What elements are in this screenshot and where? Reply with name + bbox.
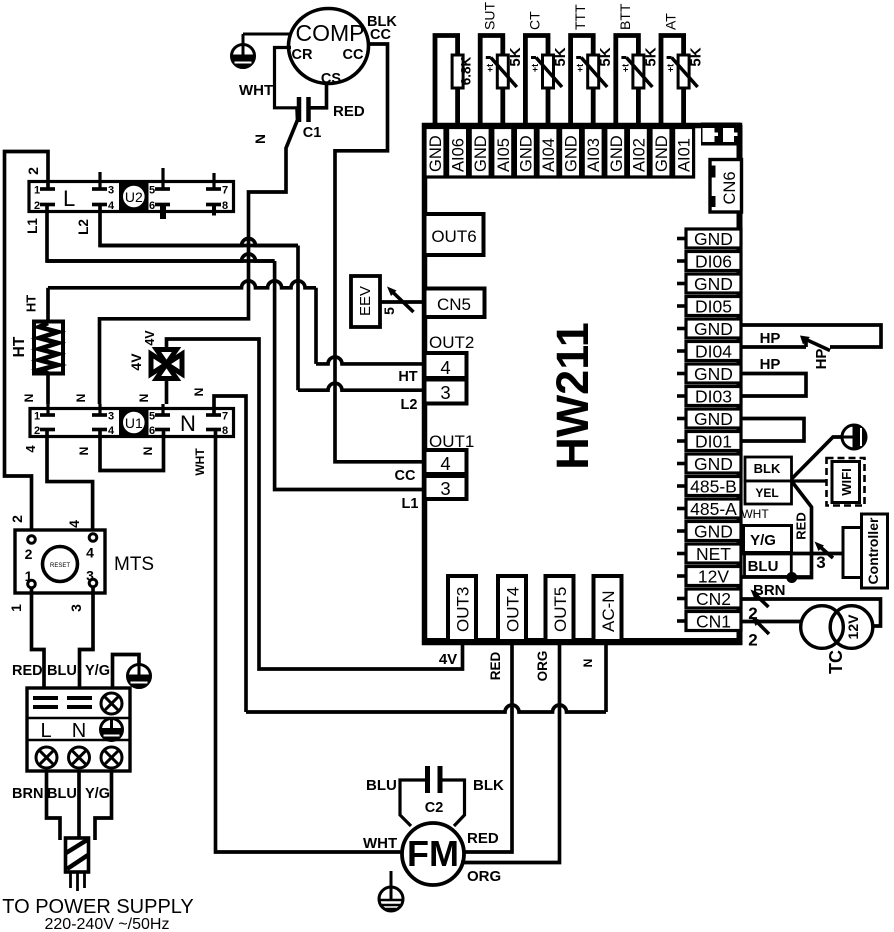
fuse marks — [33, 696, 58, 700]
wire 4V valve top to OUT3 (4V) — [167, 339, 463, 669]
svg-text:FM: FM — [407, 833, 459, 874]
svg-text:TC: TC — [826, 650, 846, 674]
svg-text:ORG: ORG — [467, 868, 501, 885]
svg-text:GND: GND — [563, 135, 581, 172]
box BLU — [745, 554, 792, 577]
svg-text:6: 6 — [149, 200, 155, 212]
svg-text:L: L — [63, 186, 75, 211]
wire N from C1 (to U1 pin3) — [100, 108, 298, 404]
svg-text:7: 7 — [222, 411, 228, 423]
svg-text:HP: HP — [760, 330, 781, 347]
wire U1 pin4-pin6 jumper — [100, 430, 164, 471]
svg-text:BLU: BLU — [366, 777, 397, 794]
svg-text:RED: RED — [467, 830, 499, 847]
U1 pin 6 — [155, 428, 170, 432]
U1 pin 3 — [92, 413, 107, 417]
pin 12V (right column 16) — [686, 567, 741, 586]
pin GND (right column 7) — [686, 364, 741, 383]
module WIFI — [827, 458, 865, 506]
wire to WIFI earth — [792, 437, 843, 479]
svg-text:NET: NET — [696, 544, 731, 564]
wire L1 vertical to OUT1 pin3 — [275, 261, 424, 490]
U2 pin 8 — [206, 203, 221, 207]
link DI01-GND loop — [741, 419, 804, 442]
svg-text:N: N — [72, 720, 86, 742]
U2 pin6 stub — [160, 205, 166, 220]
U2 pin 3 — [92, 187, 107, 191]
wire CN1 to TC — [741, 620, 801, 624]
pin GND (right column 9) — [686, 409, 741, 428]
svg-text:1: 1 — [25, 568, 33, 584]
wire BRN down — [47, 771, 61, 840]
svg-text:DI01: DI01 — [695, 432, 732, 452]
svg-text:CC: CC — [395, 468, 416, 484]
pin OUT5 (bottom row) — [546, 576, 574, 641]
earth (WIFI shield) — [842, 425, 866, 449]
svg-text:COMP: COMP — [296, 20, 365, 46]
capacitor C1 — [297, 97, 302, 122]
svg-text:DI03: DI03 — [695, 387, 732, 407]
pin GND (right column 11) — [686, 454, 741, 473]
pin GND (top row 1) — [425, 128, 445, 178]
svg-text:BLU: BLU — [47, 786, 77, 802]
sensor loop 1 wiring — [435, 36, 458, 129]
svg-text:5K: 5K — [642, 47, 659, 66]
svg-text:L: L — [40, 720, 51, 742]
box Y/G — [744, 526, 792, 553]
svg-text:5K: 5K — [507, 47, 524, 66]
svg-text:OUT6: OUT6 — [431, 227, 476, 246]
wire L1: U2 pin2 down — [47, 205, 275, 262]
pin 485-A (right column 13) — [686, 499, 741, 518]
wire HT to OUT2 pin4 — [314, 288, 318, 364]
svg-text:RESET: RESET — [50, 563, 70, 569]
svg-text:485-B: 485-B — [690, 477, 737, 497]
svg-text:2: 2 — [34, 425, 40, 437]
svg-text:OUT5: OUT5 — [551, 587, 570, 632]
wire EEV to CN5 — [380, 300, 424, 304]
svg-text:CN1: CN1 — [696, 612, 731, 632]
wire U1 pin7 to AC-N — [214, 396, 246, 712]
svg-text:OUT3: OUT3 — [454, 587, 473, 632]
svg-text:L1: L1 — [25, 218, 40, 234]
pin CN1 (right column 18) — [686, 612, 741, 631]
terminal strip U1 — [30, 409, 234, 437]
slash 3 — [818, 545, 833, 558]
svg-text:N: N — [141, 447, 155, 456]
connector CN5 — [425, 289, 485, 318]
wire ORG: FM to OUT5 — [461, 643, 560, 863]
wire COMP CC down (to OUT1 pin4, CC) — [335, 44, 424, 462]
svg-text:CT: CT — [527, 11, 543, 30]
U2 pin 2 — [40, 203, 55, 207]
svg-text:3: 3 — [68, 604, 84, 612]
earth terminal — [101, 719, 123, 741]
U2 pin 6 — [155, 203, 170, 207]
pin GND (right column 5) — [686, 319, 741, 338]
stepper EEV — [351, 276, 380, 327]
svg-text:EEV: EEV — [357, 286, 374, 316]
svg-text:OUT2: OUT2 — [429, 333, 474, 352]
svg-text:GND: GND — [694, 319, 733, 339]
svg-text:5: 5 — [381, 307, 397, 315]
svg-text:BLU: BLU — [47, 663, 77, 679]
svg-text:N: N — [137, 394, 151, 403]
svg-text:GND: GND — [427, 135, 445, 172]
svg-text:1: 1 — [34, 185, 40, 197]
svg-text:3: 3 — [108, 411, 114, 423]
svg-text:2: 2 — [25, 167, 41, 175]
svg-text:GND: GND — [653, 135, 671, 172]
svg-text:CC: CC — [343, 47, 364, 63]
svg-text:N: N — [581, 659, 595, 668]
heater HT — [34, 322, 63, 374]
svg-text:RED: RED — [488, 652, 503, 681]
svg-text:+t: +t — [620, 64, 630, 72]
sensor loop 6 wiring — [661, 36, 684, 129]
box YEL — [745, 481, 792, 504]
thermistor 5K (TTT) — [588, 55, 599, 88]
slash 5 (EEV cable) — [391, 290, 414, 312]
svg-text:2: 2 — [25, 546, 33, 562]
svg-text:3: 3 — [440, 478, 450, 499]
box BLK — [745, 457, 792, 481]
MTS terminal 1 — [28, 580, 36, 588]
sensor loop 4 wiring — [571, 36, 594, 129]
wire HT top — [46, 288, 50, 322]
svg-text:220-240V ~/50Hz: 220-240V ~/50Hz — [45, 916, 170, 932]
wire HT bottom to U1 pin1 — [46, 373, 50, 404]
svg-text:3: 3 — [86, 568, 94, 584]
pin GND (right column 3) — [686, 274, 741, 293]
svg-text:2: 2 — [9, 515, 25, 523]
svg-text:Y/G: Y/G — [85, 786, 110, 802]
svg-text:GND: GND — [694, 409, 733, 429]
svg-text:2: 2 — [34, 200, 40, 212]
svg-text:6: 6 — [149, 425, 155, 437]
svg-text:+t: +t — [575, 64, 585, 72]
pin AI03 (top row 8) — [583, 128, 603, 178]
U1 pin3 stub — [98, 404, 101, 415]
wire CR to C1 (WHT) — [275, 48, 298, 108]
wire RED down — [792, 481, 812, 578]
svg-text:TO POWER SUPPLY: TO POWER SUPPLY — [2, 896, 194, 918]
earth (compressor shell ground) — [242, 34, 245, 48]
sensor loop 2 wiring — [480, 36, 503, 129]
svg-text:OUT4: OUT4 — [504, 587, 523, 632]
pin DI04 (right column 6) — [686, 342, 741, 361]
svg-text:WHT: WHT — [363, 835, 397, 852]
sensor loop 3 wiring — [525, 36, 548, 129]
svg-text:DI04: DI04 — [695, 342, 732, 362]
pin GND (top row 9) — [606, 128, 626, 178]
svg-text:N: N — [74, 394, 88, 403]
wire Y/G down — [95, 771, 112, 840]
svg-text:4: 4 — [108, 425, 115, 437]
pin AI01 (top row 12) — [674, 128, 694, 178]
power cable plug — [66, 838, 89, 872]
svg-text:12V: 12V — [845, 614, 861, 640]
svg-text:WHT: WHT — [193, 448, 207, 476]
switch HP (high pressure) loop — [741, 325, 881, 347]
pin GND (top row 11) — [651, 128, 671, 178]
wire C1 to CS — [309, 83, 327, 108]
connector OUT6 — [425, 214, 484, 255]
svg-text:AT: AT — [662, 13, 678, 30]
connector to controller — [843, 528, 862, 578]
switch MTS (manual thermal switch) — [15, 530, 105, 593]
svg-text:AI05: AI05 — [495, 138, 513, 172]
U1 pin 4 — [92, 428, 107, 432]
svg-text:5K: 5K — [688, 47, 705, 66]
connector CN6 — [710, 160, 742, 213]
svg-text:BRN: BRN — [12, 786, 43, 802]
svg-text:L2: L2 — [401, 397, 418, 413]
pin GND (top row 7) — [561, 128, 581, 178]
svg-text:3: 3 — [108, 185, 114, 197]
wire NET (3) to Controller — [741, 552, 843, 556]
svg-text:3: 3 — [816, 553, 825, 572]
svg-text:C1: C1 — [303, 125, 322, 141]
svg-text:L1: L1 — [402, 496, 419, 512]
wire RED: FM to OUT4 — [464, 643, 512, 852]
svg-text:CS: CS — [321, 71, 341, 87]
thermistor 5K (SUT) — [497, 55, 508, 88]
svg-text:WIFI: WIFI — [839, 468, 854, 495]
slash 2 (CN2) — [754, 593, 769, 607]
svg-text:U1: U1 — [125, 415, 143, 431]
svg-text:RED: RED — [333, 103, 365, 120]
wire L2 vertical to OUT2 pin3 — [296, 246, 300, 391]
svg-text:AI03: AI03 — [585, 138, 603, 172]
thermistor 5K (BTT) — [633, 55, 644, 88]
svg-text:3: 3 — [440, 382, 450, 403]
MTS terminal 2 — [28, 536, 36, 544]
wire 4V valve bottom to U1 pin5 — [165, 378, 169, 404]
wire L1 horizontal (hops N rail) — [47, 254, 275, 261]
svg-text:GND: GND — [517, 135, 535, 172]
wire BLU (C2 left) — [400, 780, 428, 826]
svg-text:AI01: AI01 — [676, 138, 694, 172]
svg-text:5: 5 — [149, 185, 155, 197]
wire MTS 3 to power block (BLU) — [80, 587, 94, 688]
pin DI06 (right column 2) — [686, 252, 741, 271]
svg-text:HT: HT — [398, 369, 417, 385]
svg-text:RED: RED — [12, 663, 43, 679]
svg-text:+t: +t — [530, 64, 540, 72]
svg-text:GND: GND — [694, 454, 733, 474]
svg-text:BLK: BLK — [754, 461, 781, 476]
wire MTS 1 to power block (RED) — [32, 588, 45, 688]
box Controller — [862, 514, 888, 588]
U2 pin 1 — [40, 187, 55, 191]
svg-text:8: 8 — [222, 200, 228, 212]
svg-text:HT: HT — [24, 295, 39, 312]
svg-text:AI06: AI06 — [450, 138, 468, 172]
svg-text:CR: CR — [292, 47, 313, 63]
HP switch blade — [805, 339, 830, 351]
svg-text:AI02: AI02 — [630, 138, 648, 172]
svg-text:4: 4 — [440, 453, 450, 474]
svg-text:SUT: SUT — [482, 2, 498, 30]
pin 485-B (right column 12) — [686, 477, 741, 496]
svg-text:DI05: DI05 — [695, 297, 732, 317]
svg-text:BLK: BLK — [473, 777, 504, 794]
slash 2 (CN1) — [755, 620, 769, 634]
svg-text:U2: U2 — [125, 189, 143, 205]
pin AI02 (top row 10) — [628, 128, 648, 178]
resistor 6.8K — [452, 55, 463, 88]
svg-text:CC: CC — [370, 27, 391, 43]
thermistor 5K (AT) — [678, 55, 689, 88]
sensor loop 5 wiring — [616, 36, 639, 129]
U2 pin 7 — [206, 187, 221, 191]
svg-text:GND: GND — [472, 135, 490, 172]
svg-text:5K: 5K — [597, 47, 614, 66]
svg-text:GND: GND — [694, 364, 733, 384]
svg-text:HP: HP — [813, 349, 830, 370]
svg-text:GND: GND — [694, 522, 733, 542]
svg-text:4: 4 — [86, 545, 94, 561]
pin AI06 (top row 2) — [448, 128, 468, 178]
svg-text:L2: L2 — [76, 219, 91, 235]
svg-text:ORG: ORG — [535, 651, 550, 682]
svg-text:DI06: DI06 — [695, 252, 732, 272]
valve 4V (4-way) — [151, 354, 167, 374]
U1 pin1 stub — [46, 404, 49, 415]
junction dot — [786, 572, 797, 583]
svg-text:8: 8 — [222, 425, 228, 437]
wire BLU down — [77, 771, 81, 845]
svg-text:1: 1 — [8, 604, 24, 612]
wire L2: U2 pin4 down — [100, 205, 298, 246]
svg-text:CN2: CN2 — [696, 589, 731, 609]
pin AI05 (top row 4) — [493, 128, 513, 178]
svg-text:12V: 12V — [698, 567, 729, 587]
pin DI01 (right column 10) — [686, 432, 741, 451]
U1 pin 1 — [40, 413, 55, 417]
svg-text:BTT: BTT — [617, 3, 633, 30]
terminal strip U2 — [29, 182, 234, 212]
pin NET (right column 15) — [686, 544, 741, 563]
U1 pin 8 — [206, 428, 221, 432]
svg-text:Controller: Controller — [865, 517, 881, 584]
pin DI05 (right column 4) — [686, 297, 741, 316]
U2 pin 5 — [155, 187, 170, 191]
svg-text:5: 5 — [149, 411, 155, 423]
plug prongs — [69, 872, 72, 888]
svg-text:5K: 5K — [552, 47, 569, 66]
relay U1 marker — [119, 409, 149, 437]
svg-text:YEL: YEL — [755, 486, 778, 500]
U1 pin5 stub — [161, 404, 164, 415]
link DI03-GND loop — [741, 374, 806, 397]
svg-text:WHT: WHT — [239, 82, 273, 99]
svg-text:GND: GND — [608, 135, 626, 172]
U2 pin3 stub — [98, 172, 101, 189]
pin OUT3 (bottom row) — [448, 576, 476, 641]
wire U2 pin1 to left rail — [5, 152, 49, 541]
svg-text:N: N — [22, 394, 36, 403]
pin DI03 (right column 8) — [686, 387, 741, 406]
svg-text:TTT: TTT — [572, 4, 588, 30]
svg-text:+t: +t — [666, 64, 676, 72]
pin GND (top row 5) — [515, 128, 535, 178]
svg-text:4: 4 — [66, 520, 82, 528]
capacitor C2 — [425, 766, 430, 793]
svg-text:WHT: WHT — [741, 507, 769, 521]
svg-text:GND: GND — [694, 229, 733, 249]
svg-text:6.8K: 6.8K — [459, 56, 474, 85]
svg-text:GND: GND — [694, 274, 733, 294]
wire U1 pin2 to MTS 4 — [47, 430, 93, 541]
relay U2 marker — [119, 182, 149, 212]
svg-text:CN6: CN6 — [721, 171, 739, 204]
compressor COMP circle — [289, 9, 369, 84]
wire FM earth — [390, 871, 393, 888]
svg-text:MTS: MTS — [114, 554, 154, 575]
main board HW211 outline — [425, 126, 740, 643]
svg-text:AI04: AI04 — [540, 138, 558, 172]
svg-text:HT: HT — [11, 336, 28, 357]
svg-text:HW211: HW211 — [547, 322, 598, 470]
svg-text:N: N — [77, 447, 91, 456]
wire Y/G to earth — [113, 655, 140, 689]
svg-text:N: N — [192, 388, 206, 397]
U1 pin 7 — [206, 413, 221, 417]
svg-text:Y/G: Y/G — [750, 532, 776, 549]
pin AI04 (top row 6) — [538, 128, 558, 178]
connector CN (black, top right) — [701, 123, 741, 146]
terminal screw — [101, 693, 122, 714]
wire to WIFI module — [792, 479, 827, 482]
U2 pin5 stub — [161, 168, 164, 189]
wire CN2 to TC — [741, 599, 881, 626]
pin AC-N (bottom row) — [594, 576, 622, 641]
pin CN2 (right column 17) — [686, 589, 741, 608]
svg-text:7: 7 — [222, 185, 228, 197]
MTS terminal 3 — [89, 579, 97, 587]
pin GND (right column 1) — [686, 229, 741, 248]
svg-text:1: 1 — [34, 411, 40, 423]
svg-text:AC-N: AC-N — [599, 590, 618, 632]
U1 pin 5 — [155, 413, 170, 417]
svg-text:485-A: 485-A — [690, 499, 737, 519]
svg-text:4: 4 — [108, 200, 115, 212]
U2 pin8 stub — [212, 205, 216, 216]
svg-text:4V: 4V — [143, 330, 157, 346]
power terminal block — [27, 688, 130, 771]
svg-text:N: N — [253, 134, 268, 144]
earth (motor) — [379, 887, 403, 911]
transformer TC — [801, 606, 844, 649]
svg-text:2: 2 — [748, 631, 757, 650]
wire BLK (C2 right) — [440, 780, 465, 826]
pin GND (top row 3) — [470, 128, 490, 178]
svg-text:HP: HP — [760, 356, 781, 373]
svg-text:4V: 4V — [128, 353, 144, 371]
svg-text:4: 4 — [23, 445, 38, 453]
pin OUT4 (bottom row) — [498, 576, 526, 641]
pin GND (right column 14) — [686, 522, 741, 541]
svg-text:+t: +t — [485, 64, 495, 72]
wire WHT: U1 pin8 to FM — [216, 430, 403, 853]
svg-text:CN5: CN5 — [437, 295, 471, 314]
motor FM circle — [402, 823, 464, 885]
svg-text:BLU: BLU — [748, 558, 779, 575]
U2 pin 4 — [92, 203, 107, 207]
MTS terminal 4 — [89, 534, 97, 542]
